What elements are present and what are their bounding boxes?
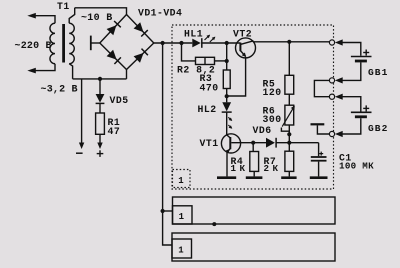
- svg-text:300: 300: [263, 114, 282, 125]
- svg-text:HL2: HL2: [198, 104, 217, 115]
- svg-text:VD5: VD5: [110, 95, 129, 106]
- svg-text:HL1: HL1: [184, 28, 203, 39]
- svg-text:Т1: Т1: [57, 1, 70, 12]
- svg-text:47: 47: [108, 126, 121, 137]
- svg-text:GB1: GB1: [368, 67, 388, 78]
- svg-text:1: 1: [178, 176, 184, 186]
- svg-text:120: 120: [263, 87, 282, 98]
- svg-text:1: 1: [178, 246, 184, 256]
- svg-text:GB2: GB2: [368, 123, 388, 134]
- svg-text:~3,2 В: ~3,2 В: [41, 84, 78, 95]
- svg-text:VT1: VT1: [200, 138, 219, 149]
- svg-text:VD6: VD6: [253, 125, 272, 136]
- svg-text:470: 470: [200, 83, 219, 94]
- svg-text:~10 В: ~10 В: [81, 13, 113, 24]
- svg-text:1: 1: [179, 212, 185, 222]
- svg-text:~220 В: ~220 В: [15, 41, 52, 52]
- svg-text:VD1-VD4: VD1-VD4: [138, 8, 182, 19]
- svg-text:100 МК: 100 МК: [339, 160, 374, 171]
- svg-text:VT2: VT2: [233, 28, 252, 39]
